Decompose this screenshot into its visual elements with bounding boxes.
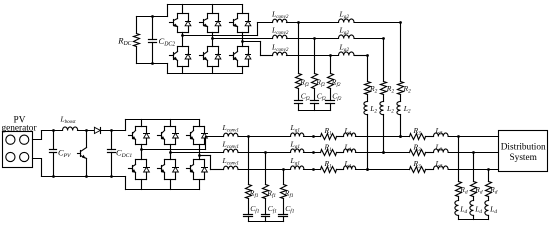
svg-text:Lconv2: Lconv2 xyxy=(271,26,289,37)
svg-text:Rf2: Rf2 xyxy=(299,78,309,89)
svg-text:Lconv1: Lconv1 xyxy=(222,139,239,150)
svg-text:R1: R1 xyxy=(324,126,333,137)
svg-text:L1: L1 xyxy=(344,142,352,153)
svg-text:Rd: Rd xyxy=(474,185,483,196)
svg-text:RDC: RDC xyxy=(117,36,131,48)
svg-text:CDC1: CDC1 xyxy=(116,149,132,160)
svg-text:Ld: Ld xyxy=(474,205,482,216)
svg-text:Rf1: Rf1 xyxy=(249,188,259,199)
svg-text:R3: R3 xyxy=(413,142,422,153)
svg-text:L2: L2 xyxy=(386,104,394,115)
svg-text:L3: L3 xyxy=(435,142,443,153)
svg-text:Lg1: Lg1 xyxy=(290,123,301,134)
svg-text:R1: R1 xyxy=(324,142,333,153)
svg-text:Cf2: Cf2 xyxy=(317,91,327,102)
svg-text:Lg1: Lg1 xyxy=(290,156,301,167)
svg-text:R2: R2 xyxy=(369,84,378,95)
svg-text:Cf1: Cf1 xyxy=(268,204,278,215)
svg-text:L2: L2 xyxy=(403,104,411,115)
svg-text:R3: R3 xyxy=(413,126,422,137)
svg-text:Rd: Rd xyxy=(459,185,468,196)
svg-text:R2: R2 xyxy=(403,84,412,95)
svg-text:Lg1: Lg1 xyxy=(290,139,301,150)
svg-text:CDC2: CDC2 xyxy=(159,36,176,48)
svg-text:Lconv1: Lconv1 xyxy=(222,156,239,167)
svg-text:Rd: Rd xyxy=(489,185,498,196)
svg-text:L3: L3 xyxy=(435,126,443,137)
svg-text:Ld: Ld xyxy=(459,205,467,216)
svg-text:Lg2: Lg2 xyxy=(339,9,350,20)
svg-text:Lboost: Lboost xyxy=(60,114,77,125)
svg-text:Cf1: Cf1 xyxy=(250,204,260,215)
svg-text:Ld: Ld xyxy=(489,205,497,216)
svg-text:Lconv2: Lconv2 xyxy=(271,42,289,53)
svg-text:CPV: CPV xyxy=(58,149,71,160)
svg-text:R2: R2 xyxy=(386,84,395,95)
svg-text:Rf2: Rf2 xyxy=(331,78,341,89)
svg-text:generator: generator xyxy=(1,124,37,134)
svg-text:Lconv2: Lconv2 xyxy=(271,9,289,20)
svg-text:Rf1: Rf1 xyxy=(284,188,294,199)
svg-text:L2: L2 xyxy=(369,104,377,115)
svg-text:Distribution: Distribution xyxy=(501,143,546,153)
svg-text:Cf1: Cf1 xyxy=(285,204,295,215)
svg-text:Rf1: Rf1 xyxy=(266,188,276,199)
svg-text:Lconv1: Lconv1 xyxy=(222,123,239,134)
svg-text:Lg2: Lg2 xyxy=(339,42,350,53)
svg-text:L1: L1 xyxy=(344,126,352,137)
svg-text:System: System xyxy=(510,153,538,163)
svg-text:Rf2: Rf2 xyxy=(315,78,325,89)
svg-text:Cf2: Cf2 xyxy=(301,91,311,102)
svg-text:Cf2: Cf2 xyxy=(332,91,342,102)
